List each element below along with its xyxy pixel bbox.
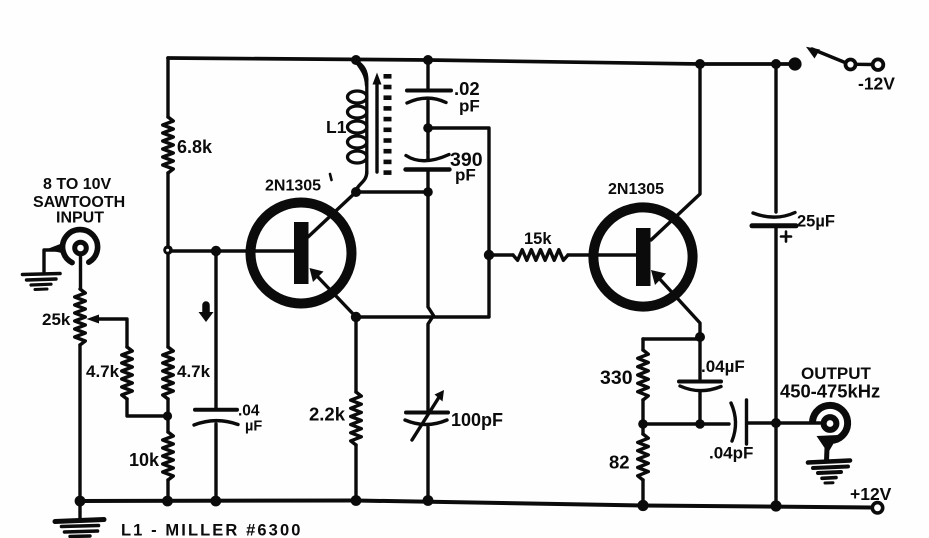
svg-text:450-475kHz: 450-475kHz (780, 381, 880, 402)
svg-text:4.7k: 4.7k (177, 362, 211, 381)
svg-text:+12V: +12V (850, 484, 892, 504)
svg-text:10k: 10k (129, 450, 160, 470)
svg-text:100pF: 100pF (451, 410, 503, 430)
svg-text:-12V: -12V (858, 74, 895, 94)
svg-text:.04pF: .04pF (709, 444, 753, 463)
svg-text:L1: L1 (326, 117, 347, 137)
svg-text:25k: 25k (42, 310, 71, 329)
svg-text:µF: µF (245, 419, 262, 435)
svg-text:15k: 15k (524, 230, 552, 248)
svg-text:25µF: 25µF (797, 213, 835, 231)
svg-text:INPUT: INPUT (56, 210, 104, 227)
svg-text:pF: pF (455, 166, 476, 185)
svg-text:2N1305: 2N1305 (265, 178, 321, 195)
svg-text:6.8k: 6.8k (177, 137, 213, 157)
svg-text:4.7k: 4.7k (86, 362, 120, 381)
svg-text:2.2k: 2.2k (309, 404, 346, 425)
svg-text:.04: .04 (238, 403, 260, 420)
svg-text:2N1305: 2N1305 (608, 181, 664, 198)
svg-text:.04µF: .04µF (701, 357, 745, 376)
svg-text:8 TO 10V: 8 TO 10V (43, 176, 112, 193)
svg-text:82: 82 (609, 452, 630, 473)
svg-text:330: 330 (600, 367, 633, 389)
svg-text:L1 - MILLER #6300: L1 - MILLER #6300 (121, 522, 303, 538)
svg-text:pF: pF (459, 97, 480, 116)
svg-text:SAWTOOTH: SAWTOOTH (33, 194, 125, 211)
